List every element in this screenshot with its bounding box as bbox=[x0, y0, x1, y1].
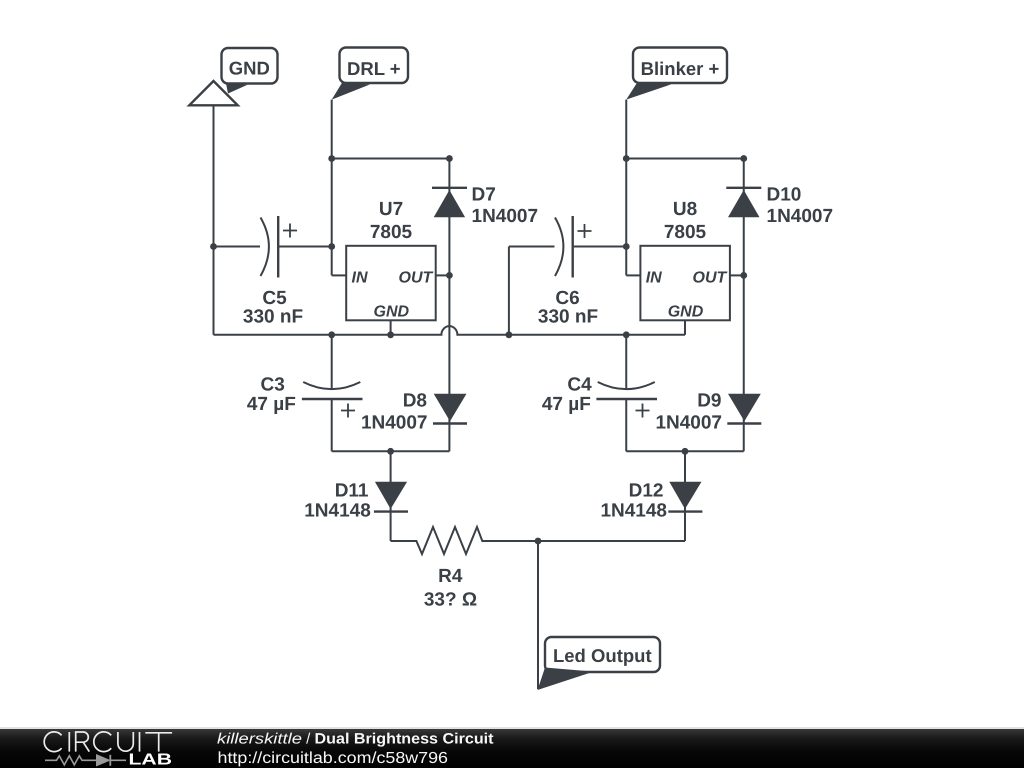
node D12 top bbox=[682, 448, 689, 455]
logo CIRCUIT bbox=[44, 732, 172, 752]
svg-text:D7: D7 bbox=[472, 185, 496, 206]
footer bar bbox=[0, 727, 1024, 768]
flag Led Output bbox=[538, 637, 661, 690]
svg-text:D10: D10 bbox=[767, 185, 802, 206]
wire gnd vertical bbox=[213, 105, 215, 334]
capacitor C6 bbox=[509, 216, 626, 328]
wire D12 to output bbox=[538, 540, 685, 542]
svg-text:D9: D9 bbox=[697, 391, 721, 412]
capacitor C3 bbox=[247, 335, 363, 452]
diode D7 bbox=[432, 159, 538, 276]
svg-text:1N4148: 1N4148 bbox=[600, 501, 667, 522]
diode D10 bbox=[726, 159, 833, 276]
diode D12 bbox=[600, 451, 702, 541]
svg-text:1N4007: 1N4007 bbox=[655, 412, 722, 433]
wire GND stub U7 bbox=[390, 320, 392, 335]
svg-text:GND: GND bbox=[374, 303, 410, 320]
svg-text:GND: GND bbox=[229, 58, 270, 79]
logo resistor-diode glyph bbox=[45, 755, 126, 766]
wire ground rail with hop bbox=[214, 326, 686, 335]
wire bottom left horizontal bbox=[332, 450, 450, 452]
svg-text:http://circuitlab.com/c58w796: http://circuitlab.com/c58w796 bbox=[218, 750, 449, 767]
diode D8 bbox=[361, 275, 467, 451]
svg-text:47 µF: 47 µF bbox=[247, 394, 296, 415]
wire C6 drop bbox=[508, 247, 510, 335]
diode D9 bbox=[655, 275, 761, 451]
node OUT U8 bbox=[740, 272, 747, 279]
svg-text:U7: U7 bbox=[379, 199, 403, 220]
node rail C4 bbox=[623, 331, 630, 338]
node rail C6drop bbox=[506, 331, 513, 338]
node D bbox=[740, 155, 747, 162]
svg-text:Blinker +: Blinker + bbox=[641, 58, 720, 79]
svg-text:LAB: LAB bbox=[129, 752, 173, 768]
node D11 top bbox=[387, 448, 394, 455]
node A bbox=[328, 155, 335, 162]
node C6-IN bbox=[623, 243, 630, 250]
svg-text:DRL +: DRL + bbox=[347, 58, 401, 79]
svg-text:IN: IN bbox=[646, 270, 662, 287]
svg-text:1N4007: 1N4007 bbox=[361, 412, 428, 433]
wire output vertical bbox=[537, 541, 539, 689]
wire OUT stub U7 bbox=[436, 274, 450, 276]
svg-text:7805: 7805 bbox=[370, 222, 413, 243]
svg-text:D12: D12 bbox=[629, 481, 664, 502]
svg-text:D11: D11 bbox=[335, 481, 369, 502]
wire top left horizontal bbox=[332, 158, 450, 160]
svg-text:D8: D8 bbox=[403, 391, 427, 412]
wire Blinker vertical bbox=[625, 100, 627, 276]
diode D11 bbox=[304, 451, 408, 541]
capacitor C5 bbox=[214, 216, 332, 328]
svg-text:47 µF: 47 µF bbox=[542, 394, 591, 415]
svg-text:R4: R4 bbox=[438, 566, 463, 587]
wire OUT stub U8 bbox=[730, 274, 744, 276]
svg-text:33? Ω: 33? Ω bbox=[424, 589, 477, 610]
node output bbox=[535, 538, 542, 545]
node OUT U7 bbox=[446, 272, 453, 279]
capacitor C4 bbox=[542, 335, 657, 452]
svg-text:IN: IN bbox=[352, 270, 368, 287]
svg-text:killerskittle / Dual Brightnes: killerskittle / Dual Brightness Circuit bbox=[217, 731, 494, 748]
ground bbox=[189, 81, 247, 105]
svg-text:Led Output: Led Output bbox=[553, 645, 652, 666]
node B bbox=[446, 155, 453, 162]
wire top right horizontal bbox=[626, 158, 744, 160]
wire GND stub U8 bbox=[684, 320, 686, 335]
flag GND bbox=[222, 48, 278, 84]
svg-text:U8: U8 bbox=[673, 199, 697, 220]
wire bottom right horizontal bbox=[626, 450, 744, 452]
wire IN stub U7 bbox=[332, 274, 347, 276]
svg-text:7805: 7805 bbox=[664, 222, 707, 243]
node rail C3 bbox=[328, 331, 335, 338]
svg-text:C3: C3 bbox=[261, 375, 285, 396]
svg-text:C4: C4 bbox=[567, 375, 592, 396]
svg-text:330 nF: 330 nF bbox=[538, 307, 598, 328]
svg-text:1N4148: 1N4148 bbox=[304, 501, 371, 522]
svg-text:OUT: OUT bbox=[693, 270, 728, 287]
svg-text:1N4007: 1N4007 bbox=[472, 206, 539, 227]
svg-text:330 nF: 330 nF bbox=[243, 307, 303, 328]
node C5-IN bbox=[328, 243, 335, 250]
svg-text:OUT: OUT bbox=[399, 270, 434, 287]
node gnd-C5 tap bbox=[210, 243, 217, 250]
regulator U8 7805 bbox=[640, 199, 730, 320]
regulator U7 7805 bbox=[346, 199, 436, 320]
resistor R4 bbox=[391, 527, 538, 610]
node C bbox=[623, 155, 630, 162]
flag Blinker + bbox=[626, 48, 727, 100]
flag DRL + bbox=[332, 48, 408, 100]
svg-text:1N4007: 1N4007 bbox=[767, 206, 834, 227]
wire DRL vertical bbox=[331, 100, 333, 276]
node rail U7gnd bbox=[387, 331, 394, 338]
wire IN stub U8 bbox=[626, 274, 640, 276]
svg-text:GND: GND bbox=[668, 303, 704, 320]
